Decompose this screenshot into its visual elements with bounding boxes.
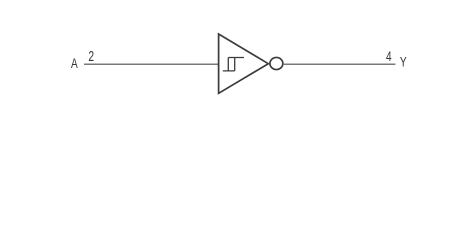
svg-text:Y: Y	[400, 54, 407, 70]
schmitt hysteresis symbol	[223, 58, 244, 71]
wire input A	[84, 63, 218, 65]
wire output Y	[284, 63, 396, 65]
bubble (inversion circle)	[270, 57, 283, 69]
svg-text:2: 2	[88, 48, 94, 64]
svg-text:4: 4	[386, 48, 392, 64]
svg-text:A: A	[71, 55, 78, 71]
op-amp U1 inverter triangle	[219, 34, 269, 93]
